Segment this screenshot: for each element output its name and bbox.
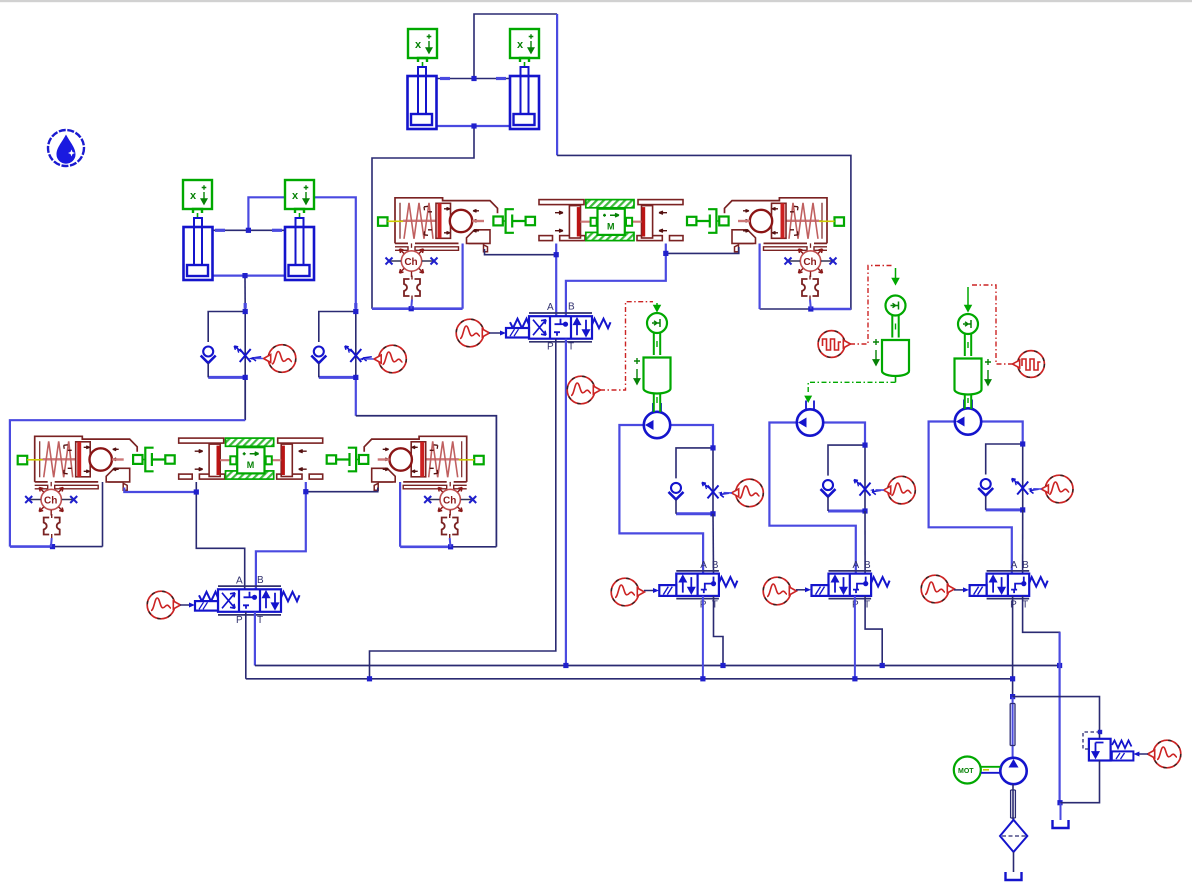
branch 2: subcircuit to valve port B <box>864 511 866 574</box>
branch 3: signal source for orifice <box>1045 475 1073 503</box>
displacement control chain 2 (offset, above pump 2) <box>882 296 909 377</box>
junction: V2 P on pressure bus <box>367 676 372 681</box>
branch 2: T line to tank bus <box>865 596 882 666</box>
top assembly: right orifice <box>802 276 818 300</box>
branch 2: pump outlet to subcircuit <box>823 423 865 446</box>
bottom assembly: left mechanical link <box>133 448 175 472</box>
hydraulic cylinder C3 (left pair left) <box>184 218 213 280</box>
bottom assembly: right orifice <box>442 514 458 538</box>
branch 3: 2-position valve <box>970 560 1048 611</box>
V4 P line to pressure bus <box>245 612 247 679</box>
filter to tank <box>1013 852 1015 872</box>
top assembly: left orifice <box>404 276 420 300</box>
signal source for V4 <box>147 591 175 619</box>
position sensor S4 (left pair) <box>285 180 314 220</box>
tank T2 <box>1006 872 1022 880</box>
wire: left cylinders rod-side ports <box>212 229 285 231</box>
V2 P line to pressure bus <box>370 339 556 679</box>
signal source for orifice A <box>268 345 296 373</box>
displacement control chain 3 (above pump 3) <box>955 314 982 395</box>
branch 3: T line to tank bus <box>1023 596 1060 666</box>
junction: top cylinder piston-side <box>471 123 476 128</box>
signal source for V2 <box>456 319 484 347</box>
branch 1: check valve + variable orifice <box>669 448 730 514</box>
relief valve <box>1089 739 1111 761</box>
wire: top cylinders piston-side ports <box>437 125 511 127</box>
branch 1: P line to pressure bus <box>702 596 704 679</box>
relief valve branch line <box>1013 697 1100 739</box>
bottom assembly: center mass block M <box>179 438 323 479</box>
bottom assembly: left chamber Ch <box>25 488 77 516</box>
tank return bus <box>255 665 1060 667</box>
position sensor S3 (left pair) <box>183 180 212 220</box>
relief valve outlet to tank line <box>1061 761 1100 803</box>
hydraulic cylinder C1 (top pair left) <box>408 67 437 129</box>
branch 2: pump suction to valve port A <box>769 423 855 574</box>
check valve + variable orifice subcircuit A <box>201 312 262 378</box>
main pump P4 <box>1000 758 1026 784</box>
junction: V2 T on tank bus <box>563 663 568 668</box>
bottom assembly: right spool valve (maroon) <box>364 436 484 489</box>
branch 1: 2-position valve <box>659 560 737 611</box>
branch 3: subcircuit to valve port B <box>1022 510 1024 574</box>
bottom assembly: right chamber Ch <box>424 488 476 516</box>
branch 1: pump suction to valve port A <box>619 425 703 574</box>
branch 2: P line to pressure bus <box>854 596 856 679</box>
top assembly: right chamber Ch <box>785 249 837 277</box>
displacement control chain 1 (above pump 1) <box>644 313 671 394</box>
branch 1: subcircuit to valve port B <box>712 514 715 574</box>
net B: bottom mass right port to valve V4 port B <box>256 482 306 589</box>
pilot signal for chain 2 <box>818 331 845 358</box>
svg-text:MOT: MOT <box>958 768 974 775</box>
top assembly: left mechanical link <box>493 209 535 233</box>
branch 1: signal source for orifice <box>736 479 764 507</box>
wire: top cylinders rod-side ports <box>437 78 511 80</box>
branch 2: valve signal source <box>763 577 791 605</box>
check valve + variable orifice subcircuit B <box>311 312 372 378</box>
branch 3: valve signal source <box>921 575 949 603</box>
branch 3: pump outlet to subcircuit <box>981 422 1023 445</box>
pilot signal for chain 1 <box>567 376 595 404</box>
pump suction pipe <box>1012 784 1014 819</box>
branch 1: T line to tank bus <box>714 596 724 666</box>
signal source for relief valve <box>1153 740 1181 768</box>
electric motor MOT <box>954 757 981 784</box>
junction: left Ch drain / rail <box>409 306 414 311</box>
pilot signal for chain 3 <box>1018 351 1045 378</box>
supply line down to main pump <box>1012 697 1014 758</box>
junction: top cylinder rod-side <box>471 76 476 81</box>
bottom assembly: right mechanical link <box>327 448 369 472</box>
junction: left cylinder rod-side <box>246 228 251 233</box>
chain 2 output to pump 2 (green signal) <box>808 382 895 394</box>
top assembly: center mass block M <box>539 200 683 241</box>
top assembly: left chamber Ch <box>386 249 438 277</box>
top assembly: right mechanical link <box>687 209 729 233</box>
junction: relief valve tap <box>1010 694 1015 699</box>
junction: left cylinder piston-side <box>242 273 247 278</box>
branch 3: hydraulic pump <box>955 408 981 434</box>
top assembly: inner port brackets <box>484 245 488 252</box>
wire: left cylinders piston-side ports <box>212 275 285 277</box>
signal source for orifice B <box>379 345 407 373</box>
branch 2: check valve + variable orifice <box>821 445 882 511</box>
branch 1: pump outlet to subcircuit <box>670 425 713 448</box>
tank return drop line <box>1058 632 1060 802</box>
net A: bottom mass left port to valve V4 port A <box>196 482 244 589</box>
branch 2: signal source for orifice <box>888 476 916 504</box>
position sensor S1 (top-left cylinder) <box>408 29 437 69</box>
wire: subcircuit A to bottom assembly left valve port <box>244 377 246 420</box>
hydraulic cylinder C2 (top pair right) <box>510 67 539 129</box>
bottom assembly: left orifice <box>44 514 60 538</box>
suction filter <box>1000 820 1027 852</box>
branch 2: hydraulic pump <box>797 409 823 435</box>
junction: bottom-left Ch drain / rail <box>50 544 55 549</box>
branch 3: check valve + variable orifice <box>978 444 1038 510</box>
junction: tank bus end <box>1057 663 1062 668</box>
V4 T line to tank bus <box>254 612 256 666</box>
net A: mass left port to valve V2 port A <box>555 244 557 317</box>
branch 3: pump suction to valve port A <box>929 422 1012 574</box>
top assembly: left spool valve (maroon) <box>378 198 498 251</box>
proportional 4/3 valve V4 <box>195 575 300 626</box>
net B: mass right port to valve V2 port B <box>566 244 666 317</box>
oil drop icon <box>48 130 84 166</box>
hydraulic cylinder C4 (left pair right) <box>285 218 314 280</box>
branch 3: P line down to supply junction <box>1012 596 1014 697</box>
motor shaft <box>981 766 1001 768</box>
bottom assembly: left spool valve (maroon) <box>18 436 138 489</box>
junction: right Ch drain / rail <box>808 306 813 311</box>
pressure supply bus <box>246 678 1013 680</box>
bottom assembly: inner port brackets <box>123 483 127 490</box>
junction: pressure bus end <box>1010 676 1015 681</box>
branch 1: hydraulic pump <box>644 412 670 438</box>
junction: bottom-right Ch drain / rail <box>448 544 453 549</box>
V2 T line to tank bus <box>565 339 567 666</box>
wire: left cylinders to subcircuit B / bottom assembly right valve <box>248 197 355 311</box>
branch 2: 2-position valve <box>812 560 890 611</box>
wire: top cylinders to right valve of top assembly <box>474 14 557 79</box>
wire: rail to left valve port of top assembly <box>372 307 463 310</box>
branch 1: valve signal source <box>611 578 639 606</box>
relief valve pilot (dashed) <box>1083 732 1100 749</box>
position sensor S2 (top-right cylinder) <box>510 29 539 69</box>
top assembly: right spool valve (maroon) <box>725 198 845 251</box>
proportional 4/3 valve V2 <box>506 302 611 353</box>
tank T1 <box>1053 820 1069 828</box>
